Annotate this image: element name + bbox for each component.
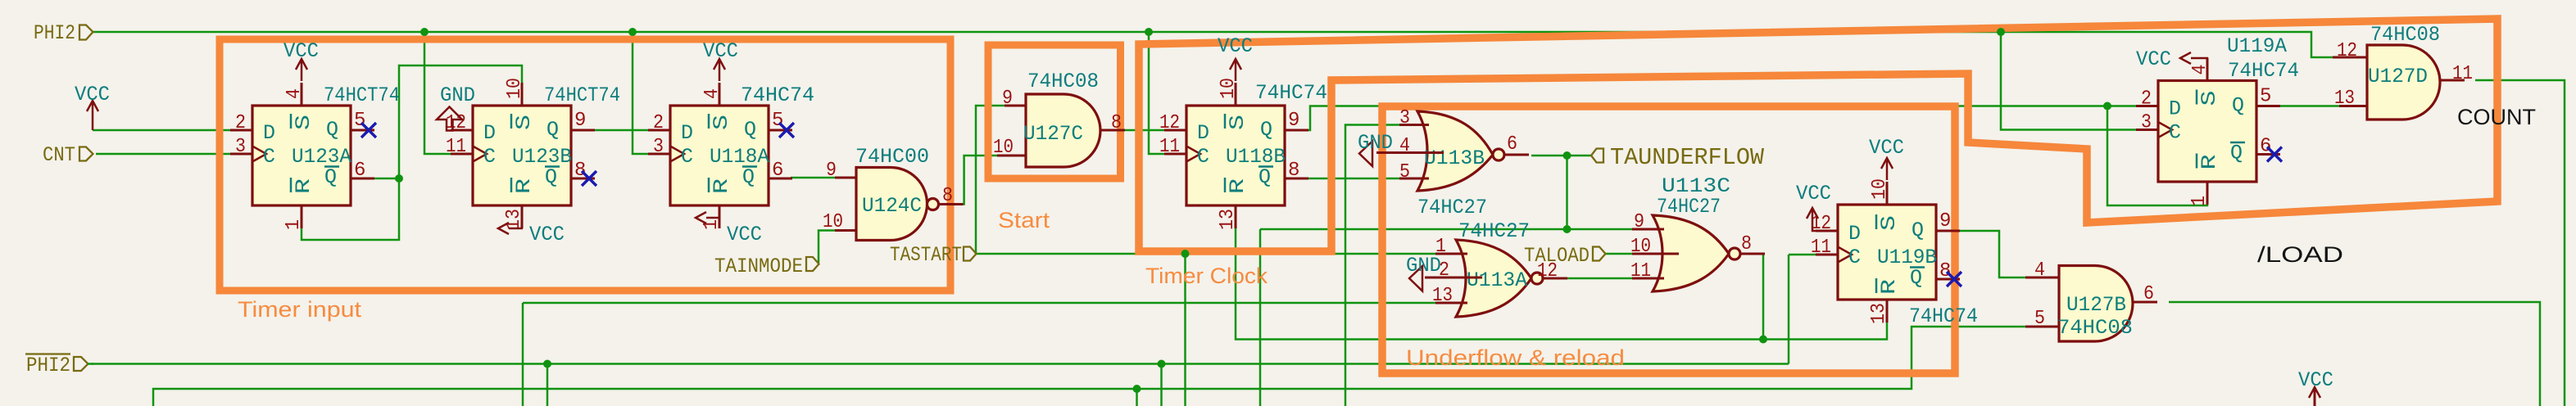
wire U113A out12 to U113C in11 [1564, 277, 1632, 280]
gate U113C 74HC27 [1630, 174, 1765, 291]
wire 2183 rise to U119B C [1789, 254, 1816, 256]
annotation box Start [988, 45, 1121, 178]
junction PHI2-U119A [1997, 28, 2005, 36]
gate U113B middle input stub [1376, 151, 1444, 154]
svg-text:Q: Q [1912, 219, 1924, 242]
svg-text:Timer Clock: Timer Clock [1145, 264, 1268, 288]
svg-text:VCC: VCC [529, 223, 565, 246]
svg-text:S: S [1877, 215, 1901, 231]
annotation box Timer input [220, 39, 950, 291]
svg-text:U127B: U127B [2066, 293, 2126, 317]
svg-text:Q: Q [744, 118, 756, 142]
wire PHI2 drop to U119A C [2001, 32, 2137, 130]
svg-text:U118A: U118A [710, 145, 769, 169]
no-connect X U118A Q [779, 123, 794, 138]
power GND at U113B in4 [1359, 142, 1372, 167]
wire W475 branch 1387 [1136, 389, 1138, 406]
svg-text:6: 6 [2143, 283, 2154, 305]
svg-text:VCC: VCC [75, 83, 110, 106]
svg-text:5: 5 [2034, 308, 2045, 330]
svg-text:74HCT74: 74HCT74 [324, 83, 400, 107]
svg-text:11: 11 [2452, 63, 2473, 85]
svg-text:GND: GND [1358, 131, 1393, 155]
power GND at U113A in2 [1409, 266, 1422, 291]
svg-text:5: 5 [1399, 161, 1410, 183]
wire PHI2bar vertical 2183 [1788, 255, 1790, 364]
junction U123A Qbar [395, 174, 403, 183]
svg-text:U127C: U127C [1023, 122, 1083, 146]
flip-flop U123B 74HCT74 [446, 78, 620, 230]
svg-text:Underflow & reload: Underflow & reload [1406, 345, 1625, 370]
svg-text:1: 1 [283, 219, 305, 230]
junction PHI2-U123B [420, 28, 429, 36]
svg-text:S: S [710, 115, 733, 130]
svg-text:VCC: VCC [1218, 34, 1253, 58]
gate U127D 74HC08 [2333, 23, 2473, 120]
svg-text:TAINMODE: TAINMODE [714, 255, 803, 278]
flip-flop U119A 74HC74 [2136, 34, 2299, 206]
gate U127C 74HC08 [993, 70, 1125, 167]
flip-flop U118A 74HC74 [648, 83, 814, 230]
wire W475 long bus [153, 327, 2025, 406]
svg-text:Q: Q [324, 165, 337, 189]
svg-text:GND: GND [440, 83, 475, 107]
junction PHI2-U118A [628, 28, 637, 36]
junction TASTART branch [1181, 250, 1190, 258]
svg-text:10: 10 [1869, 178, 1891, 200]
svg-text:D: D [483, 121, 496, 145]
svg-text:U119A: U119A [2227, 34, 2287, 58]
gate U124C 74HC00 [823, 145, 964, 241]
svg-text:3: 3 [235, 136, 246, 158]
svg-text:Q: Q [545, 165, 557, 189]
wire W370 west vertical [522, 303, 524, 406]
svg-text:C: C [1197, 145, 1209, 169]
flip-flop U119B 74HC74 [1811, 178, 1978, 328]
wire PHI2bar branch 668 [546, 364, 549, 406]
svg-text:13: 13 [1217, 209, 1239, 230]
svg-text:8: 8 [1288, 160, 1299, 182]
svg-text:U127D: U127D [2368, 65, 2428, 88]
svg-text:S: S [512, 115, 536, 130]
svg-text:3: 3 [2141, 112, 2152, 134]
gate U113B 74HC27 [1399, 107, 1529, 219]
junction TAUNDERFLOW [1563, 151, 1571, 160]
wire PHI2bar branch 1417 [1160, 364, 1163, 406]
svg-text:3: 3 [653, 136, 664, 158]
svg-text:9: 9 [1634, 211, 1644, 233]
svg-text:D: D [1197, 121, 1209, 145]
wire TASTART up to U127C in9 [976, 106, 1005, 254]
gate U127B 74HC08 [2025, 259, 2157, 341]
junction PHI2bar 1417 [1158, 360, 1166, 368]
svg-text:8: 8 [942, 185, 953, 207]
svg-text:Q: Q [1259, 165, 1271, 189]
wire U119B Q to U127B in4 [1959, 231, 2025, 277]
svg-text:74HC08: 74HC08 [2370, 23, 2440, 47]
wire U113B out6 to TAUNDERFLOW [1531, 155, 1591, 157]
svg-text:C: C [2169, 121, 2181, 145]
svg-text:D: D [1848, 222, 1861, 246]
junction W415 2152 [1759, 336, 1767, 344]
svg-text:74HC00: 74HC00 [855, 145, 929, 169]
wire PHI2bar main [92, 363, 1789, 365]
wire U113C in9 net horizontal [1260, 228, 1632, 231]
svg-text:4: 4 [2189, 65, 2211, 75]
wire U119A D-R tie [2107, 106, 2207, 206]
svg-text:74HCT74: 74HCT74 [544, 83, 620, 107]
wire U118B Qbar to U113B in5 [1283, 178, 1399, 180]
svg-text:Q: Q [326, 118, 338, 142]
flip-flop U118B 74HC74 [1159, 78, 1327, 230]
junction PHI2-U118B [1145, 28, 1153, 36]
svg-text:TASTART: TASTART [890, 243, 962, 267]
svg-text:VCC: VCC [1869, 136, 1904, 160]
svg-text:13: 13 [2334, 88, 2355, 110]
wire TAUNDERFLOW junction down [1566, 156, 1568, 229]
svg-text:Timer input: Timer input [238, 297, 362, 322]
svg-text:R: R [1226, 178, 1249, 194]
svg-text:S: S [292, 115, 315, 130]
svg-text:6: 6 [772, 160, 783, 182]
svg-text:S: S [2197, 91, 2221, 106]
svg-text:Q: Q [742, 165, 755, 189]
svg-text:9: 9 [826, 160, 837, 182]
junction PHI2bar 668 [543, 360, 551, 368]
svg-text:9: 9 [1939, 210, 1951, 232]
wire CNT to U123A C [96, 153, 232, 156]
svg-text:11: 11 [1630, 260, 1651, 282]
svg-text:8: 8 [1939, 260, 1951, 282]
wire TASTART branch down [1184, 254, 1186, 406]
svg-text:3: 3 [1399, 107, 1410, 129]
svg-text:VCC: VCC [283, 39, 319, 63]
svg-text:Q: Q [546, 118, 559, 142]
svg-text:U123B: U123B [512, 145, 572, 169]
svg-text:C: C [483, 145, 496, 169]
svg-text:1: 1 [2188, 196, 2211, 206]
svg-text:6: 6 [1507, 133, 1517, 156]
svg-text:74HC08: 74HC08 [2057, 316, 2133, 340]
svg-text:COUNT: COUNT [2457, 105, 2536, 129]
wire U113B in3 net vertical [1345, 125, 1399, 406]
wire U118B Q east to U119A D [1283, 106, 2137, 131]
svg-text:74HC74: 74HC74 [1909, 304, 1978, 328]
svg-text:U113B: U113B [1424, 147, 1485, 170]
svg-text:D: D [2169, 97, 2181, 121]
power VCC above U123A [301, 60, 303, 81]
svg-text:13: 13 [1868, 303, 1890, 324]
svg-text:12: 12 [2337, 40, 2357, 62]
svg-text:74HC27: 74HC27 [1417, 196, 1487, 219]
power VCC below U118A [706, 217, 719, 219]
wire PHI2 drop to U118A C [633, 32, 649, 154]
junction W475 1387 [1133, 385, 1141, 393]
wire U123A Qbar to U123B S [374, 65, 522, 178]
svg-text:74HC74: 74HC74 [741, 83, 814, 107]
svg-text:CNT: CNT [43, 143, 75, 167]
svg-text:R: R [292, 178, 315, 194]
power VCC at U119A S pin [2191, 57, 2208, 60]
svg-text:D: D [681, 121, 693, 145]
no-connect X U123B Qbar [582, 171, 596, 186]
power VCC below U123B [509, 228, 523, 230]
svg-text:VCC: VCC [1796, 182, 1831, 205]
junction U118BQ U119A tie [2103, 102, 2111, 111]
svg-text:74HC74: 74HC74 [2228, 59, 2299, 83]
svg-text:9: 9 [574, 110, 586, 132]
svg-text:13: 13 [1432, 285, 1453, 307]
svg-text:2: 2 [2141, 88, 2152, 111]
svg-text:R: R [1877, 279, 1901, 295]
svg-text:R: R [512, 178, 536, 194]
global label VCC left [92, 106, 94, 130]
svg-text:VCC: VCC [2298, 368, 2333, 392]
svg-text:R: R [2197, 155, 2221, 170]
wire U123A Qbar feedback to R pin [302, 178, 399, 240]
svg-text:4: 4 [283, 88, 306, 99]
svg-text:Q: Q [1910, 266, 1922, 290]
svg-text:74HC74: 74HC74 [1255, 81, 1327, 105]
svg-text:10: 10 [993, 137, 1014, 159]
wire W370 to U113A in13 [523, 302, 1435, 304]
svg-text:10: 10 [823, 211, 843, 233]
svg-text:TAUNDERFLOW: TAUNDERFLOW [1610, 144, 1765, 171]
power VCC above U118B [1235, 60, 1237, 81]
svg-text:5: 5 [2260, 86, 2271, 108]
svg-text:8: 8 [574, 160, 586, 182]
gate U113A middle input stub [1425, 277, 1482, 279]
wire TASTART east to U113A in1 [976, 253, 1435, 255]
svg-text:11: 11 [1811, 237, 1831, 259]
no-connect X U119B Qbar [1947, 272, 1961, 286]
svg-text:PHI2: PHI2 [34, 21, 75, 45]
power GND at U123B D pin [437, 107, 462, 131]
svg-text:2: 2 [235, 112, 246, 134]
svg-text:VCC: VCC [2136, 47, 2171, 71]
svg-text:S: S [1226, 115, 1249, 130]
svg-text:2: 2 [653, 112, 664, 134]
svg-text:Q: Q [1260, 118, 1272, 142]
svg-text:R: R [710, 178, 733, 194]
wire U124C out8 up to U127C in10 [940, 156, 997, 205]
svg-text:/LOAD: /LOAD [2257, 242, 2343, 267]
svg-text:5: 5 [772, 110, 783, 132]
svg-text:6: 6 [354, 160, 365, 182]
svg-text:74HC08: 74HC08 [1027, 70, 1099, 93]
wire U127D out11 east [2475, 80, 2565, 406]
power VCC above U118A [719, 60, 721, 81]
wire U113C out8 down to W415 [1762, 254, 1765, 340]
svg-text:U124C: U124C [862, 194, 922, 218]
svg-text:Q: Q [2230, 142, 2243, 165]
wire VCC label to U123A D [93, 129, 232, 132]
svg-text:TALOAD: TALOAD [1524, 244, 1590, 268]
power VCC above U119B [1886, 159, 1889, 180]
wire U123B Q to U118A D [593, 129, 649, 132]
junction U113C in9 [1563, 225, 1571, 233]
power VCC bottom right [2314, 390, 2316, 406]
svg-text:11: 11 [446, 136, 466, 158]
wire W415 reset net [1236, 226, 1887, 340]
svg-text:9: 9 [1288, 110, 1299, 132]
annotation polygon Timer Clock / COUNT [1139, 19, 2497, 251]
wire PHI2 main horizontal [93, 32, 2333, 57]
power VCC at U119B D pin [1812, 209, 1816, 231]
wire U127B out6 east [2169, 302, 2540, 406]
svg-text:VCC: VCC [703, 39, 738, 63]
wire TALOAD to U113C in10 [1605, 253, 1632, 255]
svg-text:12: 12 [1159, 112, 1180, 134]
no-connect X U119A Qbar [2267, 147, 2282, 162]
wire U118A Qbar to U124C in9 [791, 177, 835, 179]
svg-text:9: 9 [1002, 88, 1013, 110]
svg-text:Q: Q [2232, 94, 2244, 118]
svg-text:10: 10 [504, 78, 526, 99]
svg-text:4: 4 [2034, 259, 2045, 282]
gate U113C middle input stub [1632, 253, 1679, 255]
svg-text:C: C [1848, 246, 1861, 269]
flip-flop U123A 74HCT74 [230, 83, 400, 230]
gate U113A 74HC27 [1432, 219, 1567, 317]
svg-text:5: 5 [354, 110, 365, 132]
svg-text:U123A: U123A [292, 145, 351, 169]
svg-text:U119B: U119B [1877, 246, 1937, 269]
wire TAINMODE to U124C in10 [819, 231, 835, 264]
svg-text:GND: GND [1406, 254, 1441, 277]
annotation box Underflow and reload [1382, 106, 1955, 373]
svg-text:11: 11 [1159, 136, 1180, 158]
wire U119A Q to U127D in13 [2279, 105, 2339, 107]
svg-text:4: 4 [701, 88, 723, 99]
svg-text:U113A: U113A [1467, 268, 1527, 292]
svg-text:8: 8 [1741, 233, 1752, 255]
svg-text:6: 6 [2260, 136, 2271, 158]
svg-text:U118B: U118B [1226, 145, 1286, 169]
no-connect X U123A Q [361, 123, 376, 138]
wire U113C in9 net vertical [1259, 229, 1262, 406]
svg-text:D: D [263, 121, 275, 145]
wire U127C out8 to U118B D [1124, 129, 1165, 132]
svg-text:C: C [263, 145, 275, 169]
wire PHI2 drop to U123B C [424, 32, 451, 154]
svg-text:1: 1 [701, 219, 723, 230]
svg-text:VCC: VCC [727, 223, 762, 246]
svg-text:C: C [681, 145, 693, 169]
svg-text:PHI2: PHI2 [26, 354, 70, 377]
svg-text:13: 13 [503, 209, 525, 230]
svg-text:Start: Start [998, 208, 1050, 232]
wire PHI2 drop to U118B C [1149, 32, 1165, 154]
svg-text:74HC27: 74HC27 [1657, 195, 1721, 219]
svg-text:74HC27: 74HC27 [1458, 219, 1530, 243]
svg-text:8: 8 [1111, 112, 1122, 134]
